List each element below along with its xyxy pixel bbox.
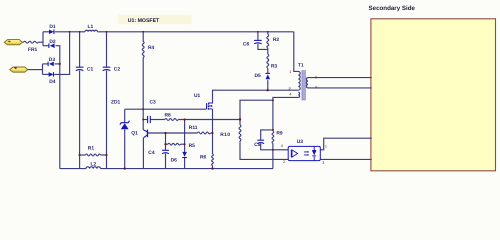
svg-text:C5: C5 <box>254 142 261 148</box>
diode D5 <box>266 74 271 79</box>
svg-text:C1: C1 <box>87 67 94 73</box>
svg-text:R10: R10 <box>220 132 230 138</box>
svg-text:C2: C2 <box>114 67 121 73</box>
svg-text:R1: R1 <box>88 146 95 152</box>
junction R5 C4 <box>164 143 166 145</box>
svg-text:C4: C4 <box>148 150 155 156</box>
svg-text:U1: MOSFET: U1: MOSFET <box>128 18 160 24</box>
wire C2 top lead <box>106 32 108 67</box>
zener diode ZD1 <box>121 123 129 129</box>
svg-text:T1: T1 <box>298 63 304 69</box>
svg-text:2: 2 <box>283 160 285 164</box>
svg-text:4: 4 <box>289 93 291 97</box>
resistor R6 <box>212 154 214 166</box>
optocoupler U3 <box>288 146 320 160</box>
svg-text:D2: D2 <box>49 39 56 45</box>
wire gate line to U1 <box>125 108 207 110</box>
wire C2 bottom lead <box>106 71 108 169</box>
svg-text:D1: D1 <box>49 24 56 30</box>
transformer T1 secondary winding pins 5-6 <box>306 78 308 88</box>
junction U3 pin4 node <box>272 149 274 151</box>
junction D4 rail <box>69 31 71 33</box>
wire U3 pin4 lead <box>273 149 288 151</box>
svg-text:D5: D5 <box>255 73 262 79</box>
svg-text:D3: D3 <box>49 57 56 63</box>
resistor R4 <box>142 42 144 58</box>
wire Q1 base line to R11 <box>148 132 198 134</box>
resistor R8 <box>165 119 179 121</box>
svg-text:D6: D6 <box>171 157 178 163</box>
wire AC1 node vertical <box>42 32 44 46</box>
svg-text:R4: R4 <box>148 45 155 51</box>
resistor R11 <box>198 132 211 134</box>
wire R10 top lead <box>239 120 241 125</box>
svg-text:R9: R9 <box>276 130 283 136</box>
junction R5 D6 branch <box>184 143 186 145</box>
wire U3 pin3 to secondary box <box>320 158 371 160</box>
svg-text:R11: R11 <box>189 125 198 131</box>
diode D6 <box>182 152 187 157</box>
svg-text:1: 1 <box>325 145 327 149</box>
wire D2 anode to minus rail <box>56 46 60 169</box>
wire U1 source down to bottom rail <box>212 109 214 154</box>
junction R6 bottom rail <box>211 167 213 169</box>
wire aux stub to x240 <box>240 100 273 119</box>
diode D4 <box>49 72 54 77</box>
wire T1 pin5 secondary to box <box>308 77 372 79</box>
wire rail corner down to T1 pin1 <box>294 32 299 72</box>
wire R2 R3 junction <box>267 48 269 54</box>
wire R4 top lead <box>142 32 144 42</box>
junction R1 right <box>105 154 107 156</box>
wire C5 bottom lead <box>261 143 273 149</box>
svg-text:FR1: FR1 <box>28 47 38 53</box>
svg-text:3: 3 <box>322 161 324 165</box>
junction D5 drain line <box>267 89 269 91</box>
svg-text:5: 5 <box>315 75 317 79</box>
wire R3 to D5 <box>267 68 269 73</box>
wire R6 bottom lead <box>212 166 214 169</box>
wire C4 top lead <box>165 133 167 150</box>
wire R11 right lead <box>211 132 213 134</box>
junction R11 R6 source <box>211 132 213 134</box>
transformer T1 core <box>302 71 306 100</box>
wire T1 pin6 secondary to box <box>308 87 372 89</box>
resistor R5 <box>168 143 180 145</box>
wire R2 top lead <box>267 32 269 34</box>
resistor R10 <box>239 125 241 141</box>
junction C2 rail <box>106 31 108 33</box>
wire R5 left lead <box>166 143 169 145</box>
svg-text:C3: C3 <box>150 99 157 105</box>
wire D4 anode stub <box>43 73 49 75</box>
junction base C4 <box>164 132 166 134</box>
svg-text:R2: R2 <box>273 37 280 43</box>
resistor R3 <box>267 54 269 68</box>
secondary side region box <box>371 19 496 171</box>
wire D3 cathode stub <box>43 63 49 65</box>
svg-text:C6: C6 <box>243 42 250 48</box>
wire C5 top stub <box>261 130 273 140</box>
wire R1 left lead <box>80 154 86 156</box>
wire R10 bottom to U3 pin2 <box>240 141 288 160</box>
svg-text:D4: D4 <box>49 79 56 85</box>
capacitor C1 <box>76 66 84 68</box>
wire C6 top lead <box>257 32 259 41</box>
junction ZD1 bottom rail <box>124 167 126 169</box>
wire bottom rail right of L2 <box>101 168 273 170</box>
svg-text:ZD1: ZD1 <box>111 99 121 105</box>
fusible resistor FR1 <box>24 41 39 43</box>
wire plug1 to FR1 <box>22 41 24 43</box>
capacitor C6 plates <box>254 39 262 41</box>
wire AC2 node vertical <box>42 64 44 75</box>
wire U1 drain to T1 pin3 <box>213 90 299 102</box>
capacitor C3 <box>148 116 151 123</box>
wire ZD1 top lead to gate line <box>124 109 126 122</box>
wire D2 cathode <box>43 45 49 47</box>
svg-text:R8: R8 <box>165 112 172 118</box>
wire D5 anode to drain line <box>267 80 269 90</box>
svg-text:L2: L2 <box>91 161 97 167</box>
junction gate R4 <box>142 108 144 110</box>
wire Q1 emitter to bottom rail <box>142 138 144 169</box>
svg-text:6: 6 <box>315 86 317 90</box>
junction feedback R10 <box>239 118 241 120</box>
junction R4 rail <box>142 31 144 33</box>
plug P2 AC input <box>10 67 28 72</box>
wire R9 bottom to rail corner <box>272 143 274 168</box>
wire R4 bottom to gate node and C3 and Q1 collector <box>142 58 144 130</box>
diode D3 <box>49 62 54 67</box>
wire D6 bottom lead <box>184 158 186 169</box>
wire C3 right to R8 <box>150 119 164 121</box>
resistor R2 <box>267 34 269 48</box>
junction R8 D6 branch <box>184 118 186 120</box>
wire plug2 to AC2 node <box>28 69 43 71</box>
wire top rail left of L1 <box>55 31 85 33</box>
wire D1 anode <box>43 31 49 33</box>
transformer T1 primary winding pins 1-3 <box>298 71 300 90</box>
svg-text:L1: L1 <box>88 24 94 30</box>
wire feedback line R8 to x240 <box>178 119 240 121</box>
junction aux stub <box>272 99 274 101</box>
diode D1 <box>49 30 54 35</box>
junction minus rail D3 <box>59 63 61 65</box>
svg-text:U3: U3 <box>297 139 304 145</box>
junction C1 rail <box>79 31 81 33</box>
wire C3 left stub <box>143 119 147 121</box>
wire T1 pin4 aux line <box>273 97 298 131</box>
diode D2 <box>50 43 55 48</box>
resistor R9 <box>272 131 274 143</box>
wire C1 top lead <box>79 32 81 67</box>
inductor L2 <box>86 167 100 169</box>
svg-text:4: 4 <box>281 144 283 148</box>
svg-text:1: 1 <box>289 70 291 74</box>
wire top rail right of L1 <box>98 31 294 33</box>
wire C1 bottom lead <box>79 71 81 169</box>
resistor R1 <box>86 154 101 156</box>
junction C5 top stub <box>272 129 274 131</box>
svg-text:R6: R6 <box>200 154 207 160</box>
svg-text:Secondary Side: Secondary Side <box>369 5 416 12</box>
wire R5 right lead <box>181 143 185 145</box>
junction C3 Q1 collector <box>142 119 144 121</box>
capacitor C4 plates <box>162 149 169 151</box>
svg-text:Q1: Q1 <box>131 131 138 137</box>
capacitor C5 plates <box>257 139 264 141</box>
svg-text:R5: R5 <box>189 143 196 149</box>
wire FR1 to bridge <box>39 41 44 43</box>
wire U3 pin1 to secondary box <box>320 138 371 150</box>
wire C6 bottom lead to R2R3 node <box>258 44 268 50</box>
transistor Q1 <box>147 130 149 138</box>
wire D4 cathode up to top rail <box>54 32 69 75</box>
junction C6 rail <box>257 31 259 33</box>
inductor L1 <box>85 30 97 32</box>
wire D6 branch vertical <box>184 120 186 152</box>
svg-text:3: 3 <box>289 86 291 90</box>
wire R1 right lead <box>101 154 107 156</box>
svg-text:R3: R3 <box>271 63 278 69</box>
junction R2 rail <box>267 31 269 33</box>
wire D3 anode to minus rail <box>55 63 60 65</box>
U1 MOSFET highlight callout <box>118 15 191 25</box>
wire ZD1 bottom lead <box>124 130 126 169</box>
svg-text:U1: U1 <box>194 93 201 99</box>
capacitor C2 <box>103 66 111 68</box>
wire bottom rail left of L2 <box>60 168 86 170</box>
junction R1 left <box>79 154 81 156</box>
transformer T1 aux winding pin 4 <box>298 92 299 97</box>
wire C4 bottom lead <box>165 154 167 169</box>
mosfet U1 <box>206 103 208 109</box>
